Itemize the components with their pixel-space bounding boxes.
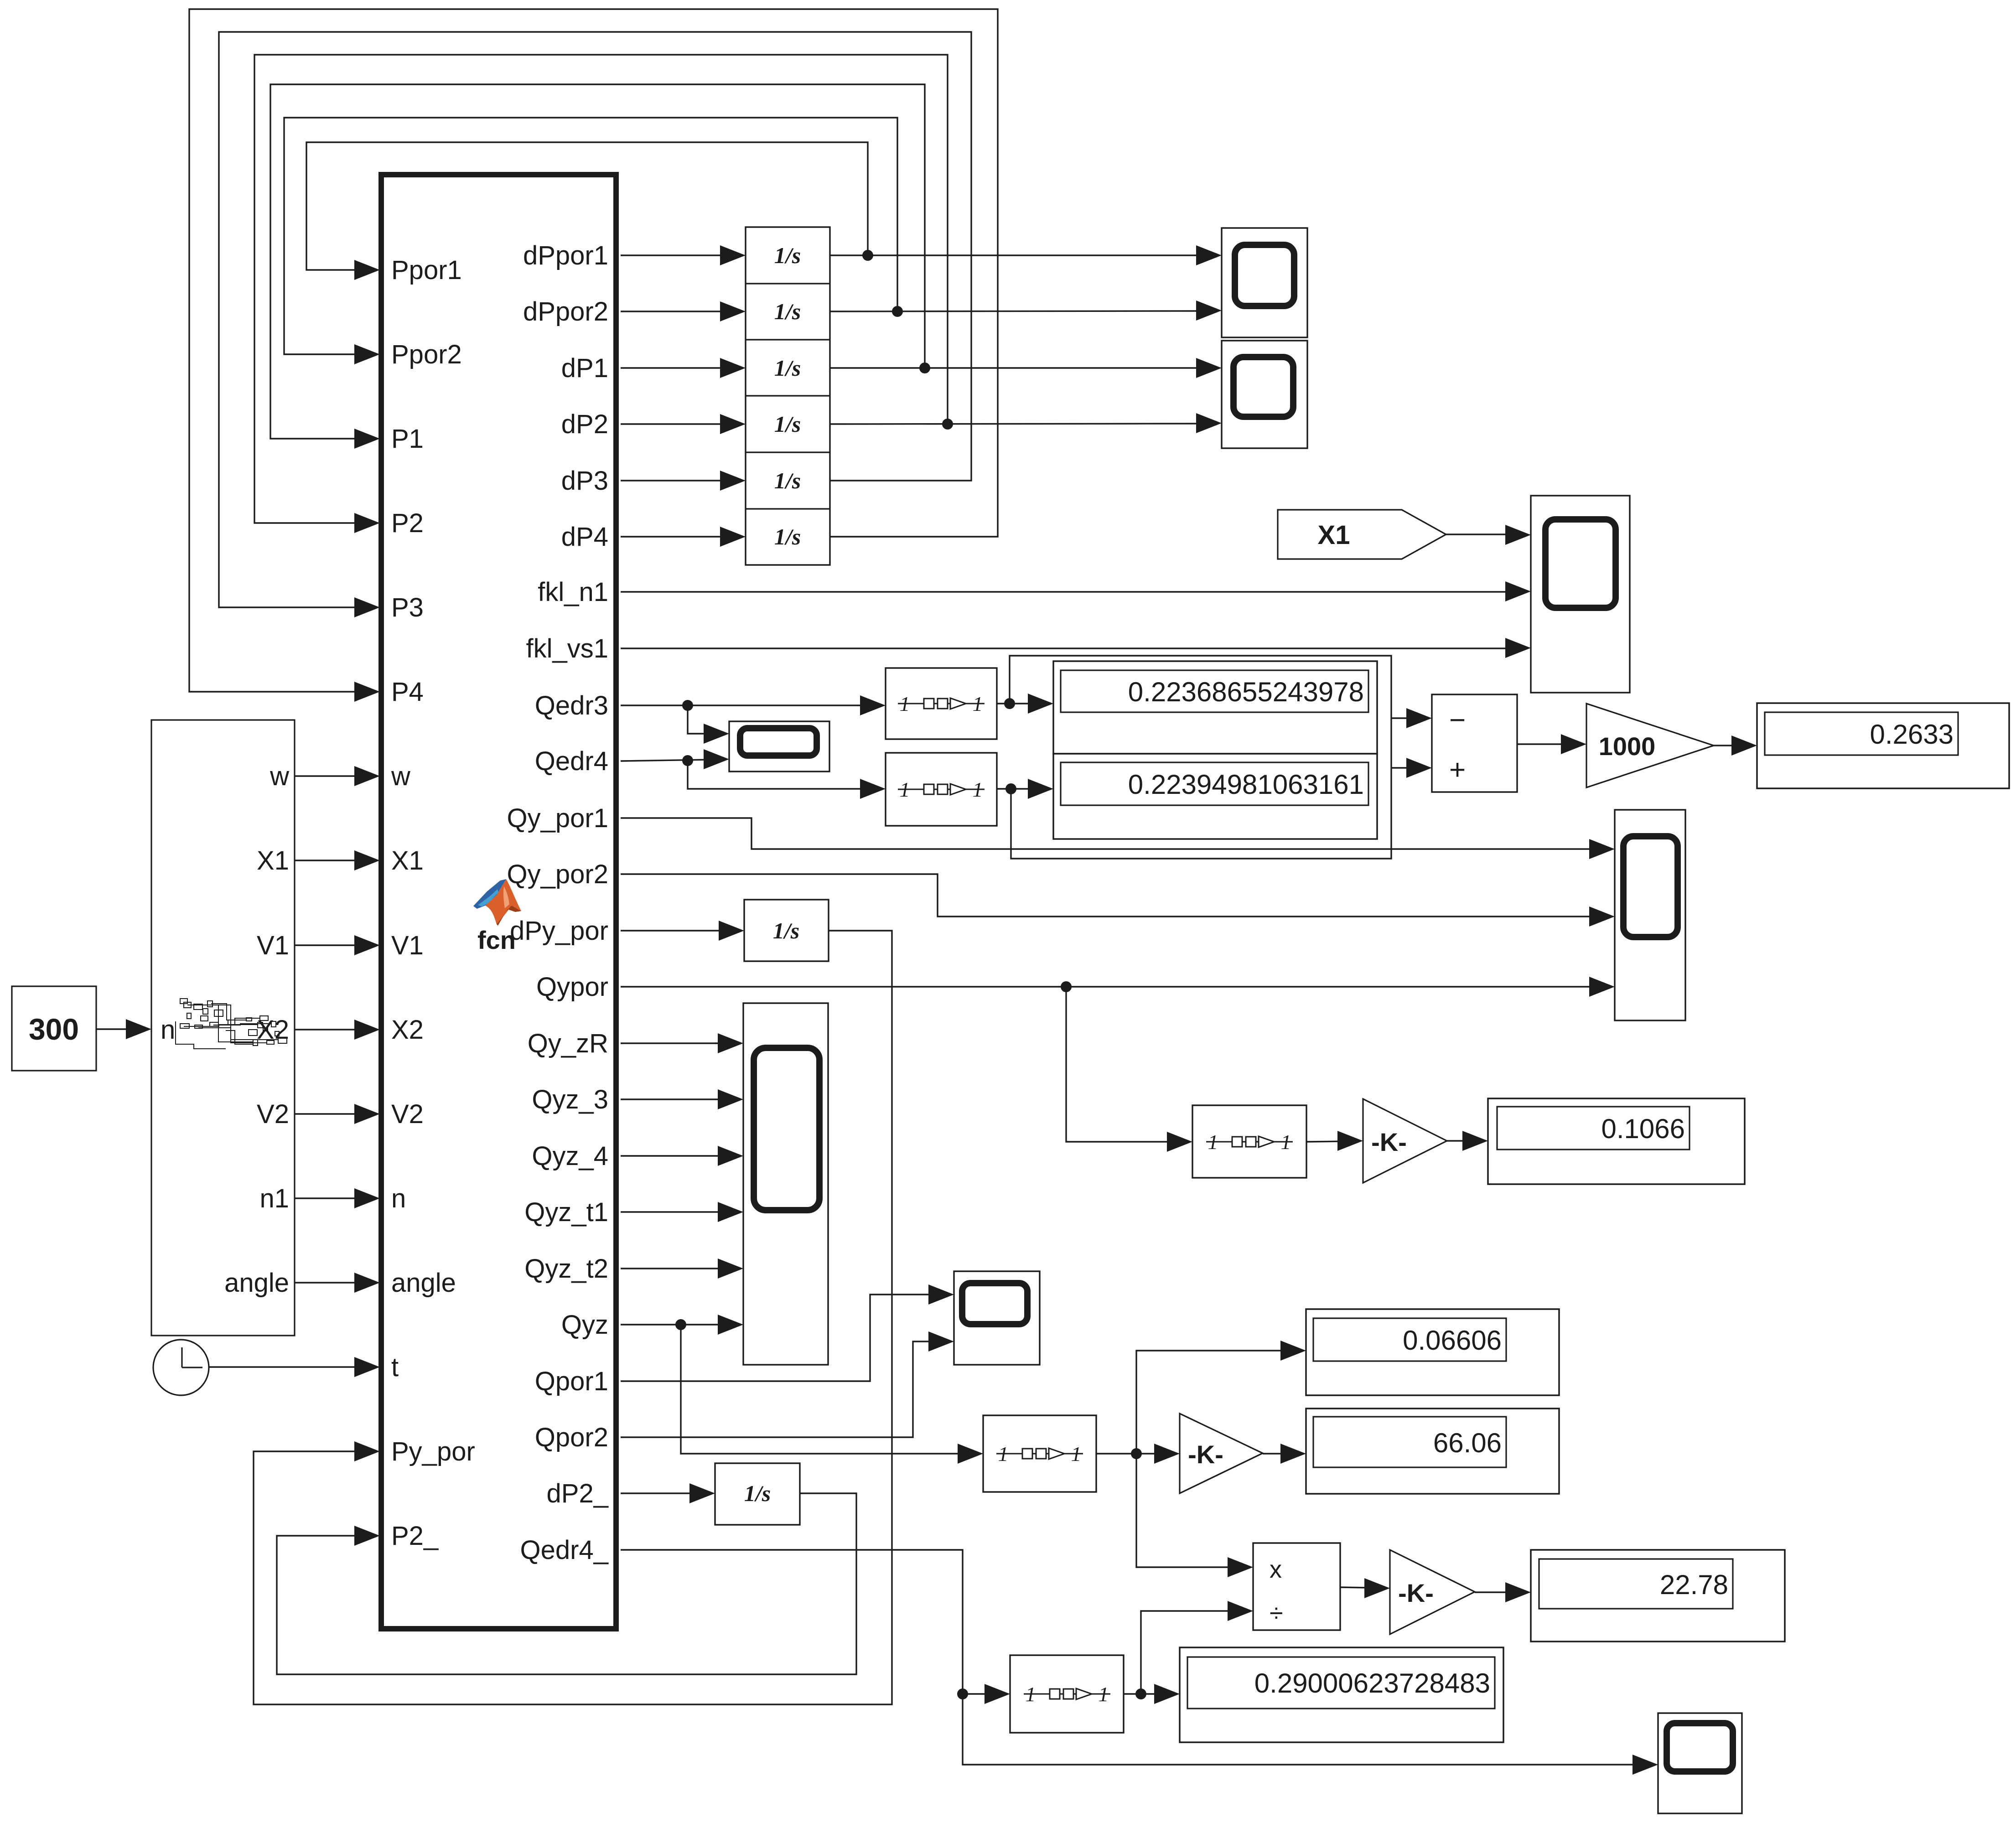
svg-text:P2: P2 <box>391 508 424 538</box>
svg-text:1: 1 <box>1071 1442 1082 1466</box>
svg-text:-K-: -K- <box>1398 1579 1434 1607</box>
svg-text:0.06606: 0.06606 <box>1403 1325 1502 1356</box>
svg-text:22.78: 22.78 <box>1660 1569 1728 1600</box>
svg-text:Ppor1: Ppor1 <box>391 255 462 285</box>
svg-text:P2_: P2_ <box>391 1521 439 1551</box>
svg-text:1/s: 1/s <box>774 299 801 324</box>
svg-text:fcn: fcn <box>477 926 516 954</box>
svg-text:fkl_n1: fkl_n1 <box>538 577 608 607</box>
svg-text:0.22368655243978: 0.22368655243978 <box>1128 677 1364 707</box>
svg-text:300: 300 <box>29 1012 79 1046</box>
svg-text:V1: V1 <box>391 931 424 960</box>
svg-text:1: 1 <box>1099 1683 1109 1706</box>
svg-text:Qyz_4: Qyz_4 <box>532 1141 608 1171</box>
svg-text:X2: X2 <box>391 1015 424 1045</box>
svg-text:Ppor2: Ppor2 <box>391 340 462 369</box>
svg-text:dP2_: dP2_ <box>547 1479 609 1508</box>
svg-text:dPy_por: dPy_por <box>510 916 608 946</box>
svg-text:-K-: -K- <box>1188 1440 1223 1469</box>
svg-text:n1: n1 <box>259 1184 289 1213</box>
svg-text:1: 1 <box>1208 1130 1218 1154</box>
svg-text:Qpor2: Qpor2 <box>535 1423 608 1452</box>
svg-text:n: n <box>391 1184 406 1213</box>
svg-text:Py_por: Py_por <box>391 1437 475 1466</box>
svg-text:1: 1 <box>973 692 983 715</box>
svg-text:P3: P3 <box>391 593 424 622</box>
svg-text:1/s: 1/s <box>774 355 801 381</box>
svg-text:Qy_por2: Qy_por2 <box>507 860 608 889</box>
svg-text:w: w <box>269 761 290 791</box>
svg-text:1/s: 1/s <box>773 918 799 943</box>
svg-text:P4: P4 <box>391 677 424 707</box>
svg-text:Qpor1: Qpor1 <box>535 1367 608 1396</box>
svg-text:Qypor: Qypor <box>536 972 608 1002</box>
svg-text:−: − <box>1449 704 1466 736</box>
svg-text:1: 1 <box>900 778 910 801</box>
svg-text:Qyz_t1: Qyz_t1 <box>524 1197 608 1227</box>
svg-text:Qedr4: Qedr4 <box>535 746 608 776</box>
svg-text:1: 1 <box>900 692 910 715</box>
svg-text:0.1066: 0.1066 <box>1601 1113 1685 1144</box>
svg-text:X1: X1 <box>1318 520 1350 550</box>
svg-text:dPpor1: dPpor1 <box>523 241 608 270</box>
svg-text:t: t <box>391 1352 399 1382</box>
svg-text:dPpor2: dPpor2 <box>523 297 608 326</box>
svg-text:X1: X1 <box>391 846 424 875</box>
svg-text:dP1: dP1 <box>561 353 608 383</box>
svg-text:1/s: 1/s <box>774 411 801 437</box>
svg-text:1: 1 <box>1026 1683 1036 1706</box>
svg-text:n: n <box>161 1015 175 1045</box>
svg-text:1/s: 1/s <box>744 1481 771 1506</box>
svg-text:Qedr4_: Qedr4_ <box>520 1535 609 1565</box>
svg-text:x: x <box>1270 1556 1282 1583</box>
svg-text:angle: angle <box>391 1268 456 1298</box>
svg-text:X1: X1 <box>257 846 289 875</box>
svg-text:1/s: 1/s <box>774 468 801 493</box>
svg-text:V1: V1 <box>257 931 289 960</box>
svg-text:1: 1 <box>998 1442 1009 1466</box>
svg-text:0.22394981063161: 0.22394981063161 <box>1128 769 1364 800</box>
svg-text:Qyz_t2: Qyz_t2 <box>524 1254 608 1284</box>
svg-text:1000: 1000 <box>1599 732 1656 761</box>
svg-text:0.29000623728483: 0.29000623728483 <box>1254 1668 1490 1699</box>
svg-text:dP3: dP3 <box>561 466 608 496</box>
svg-text:w: w <box>391 761 411 791</box>
svg-text:dP2: dP2 <box>561 409 608 439</box>
svg-text:Qy_por1: Qy_por1 <box>507 803 608 833</box>
svg-text:V2: V2 <box>391 1099 424 1129</box>
svg-text:1: 1 <box>973 778 983 801</box>
svg-text:66.06: 66.06 <box>1433 1428 1502 1458</box>
svg-text:÷: ÷ <box>1270 1600 1283 1627</box>
svg-text:fkl_vs1: fkl_vs1 <box>526 634 608 663</box>
svg-text:P1: P1 <box>391 424 424 454</box>
svg-text:1: 1 <box>1281 1130 1291 1154</box>
svg-text:dP4: dP4 <box>561 522 608 552</box>
svg-text:angle: angle <box>224 1268 289 1298</box>
svg-text:Qyz: Qyz <box>561 1310 608 1340</box>
svg-text:-K-: -K- <box>1371 1128 1407 1156</box>
svg-text:+: + <box>1449 754 1466 786</box>
svg-text:0.2633: 0.2633 <box>1870 719 1954 750</box>
svg-text:V2: V2 <box>257 1099 289 1129</box>
svg-text:Qy_zR: Qy_zR <box>528 1029 608 1058</box>
svg-text:Qedr3: Qedr3 <box>535 691 608 720</box>
svg-text:1/s: 1/s <box>774 243 801 268</box>
svg-text:1/s: 1/s <box>774 524 801 549</box>
svg-text:Qyz_3: Qyz_3 <box>532 1085 608 1114</box>
